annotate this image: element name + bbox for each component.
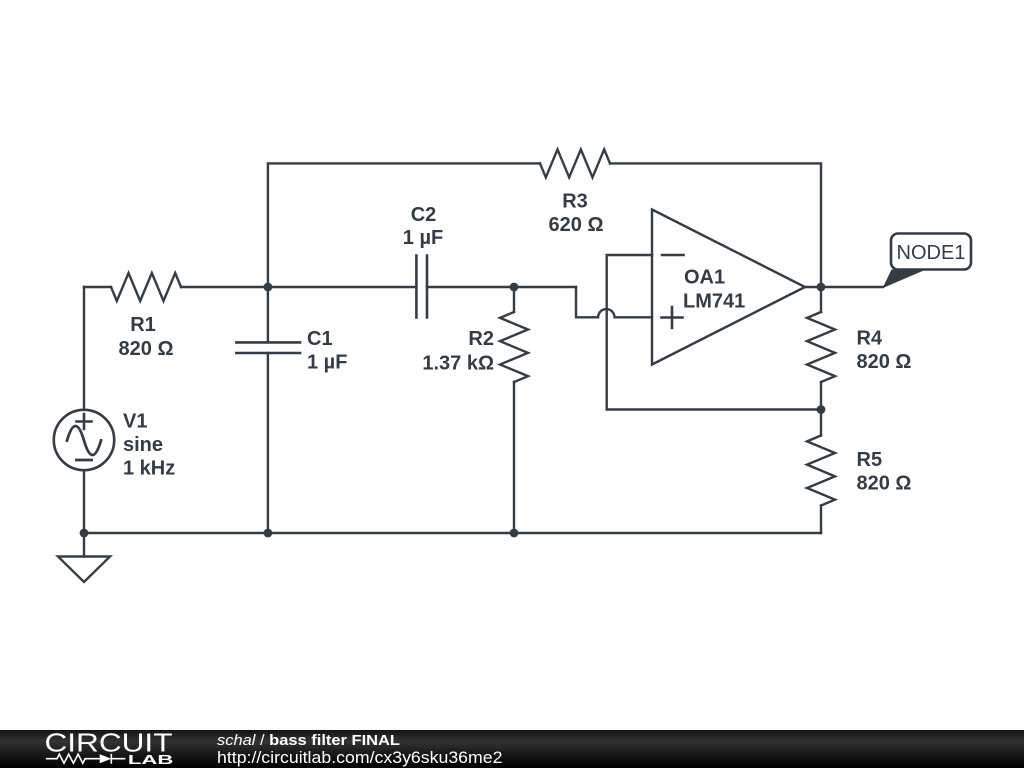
- svg-text:OA1: OA1: [684, 267, 725, 289]
- svg-text:820 Ω: 820 Ω: [857, 472, 912, 494]
- junction dot (84,533): [80, 529, 89, 538]
- junction dot (821,287): [817, 283, 826, 292]
- svg-text:1 µF: 1 µF: [307, 352, 347, 374]
- capacitor C1: [236, 342, 300, 353]
- svg-text:LM741: LM741: [683, 290, 745, 312]
- svg-text:R3: R3: [562, 191, 588, 213]
- NODE1 flag box: [891, 234, 971, 270]
- resistor R5: [820, 410, 822, 436]
- svg-text:schal / bass filter FINAL: schal / bass filter FINAL: [217, 732, 400, 749]
- wire: node down to R2: [513, 287, 515, 312]
- svg-text:NODE1: NODE1: [897, 242, 966, 264]
- V1 plus sign: [77, 414, 92, 429]
- resistor R3: [540, 149, 610, 177]
- wire: top rail left + left vertical: [268, 163, 540, 287]
- wire: C2 to node: [427, 286, 576, 288]
- svg-text:http://circuitlab.com/cx3y6sku: http://circuitlab.com/cx3y6sku36me2: [217, 748, 503, 767]
- svg-text:620 Ω: 620 Ω: [549, 214, 604, 236]
- junction dot (514,287): [510, 283, 519, 292]
- wire: C1 to bottom rail: [267, 353, 269, 533]
- op-amp OA1: [652, 210, 805, 365]
- resistor R2: [500, 312, 528, 382]
- svg-text:V1: V1: [123, 411, 147, 433]
- svg-text:820 Ω: 820 Ω: [119, 338, 174, 360]
- svg-text:C1: C1: [307, 328, 333, 350]
- junction dot (267.9,533): [264, 529, 273, 538]
- wire: R1 to C2: [181, 286, 416, 288]
- junction dot (267.9,287): [264, 283, 273, 292]
- svg-text:R5: R5: [857, 449, 883, 471]
- wire: output to NODE1: [805, 286, 883, 288]
- op-amp minus input glyph: [662, 254, 684, 257]
- wire: V1 leads: [83, 287, 85, 533]
- svg-text:1 kHz: 1 kHz: [123, 458, 175, 480]
- ground symbol: [58, 557, 110, 583]
- wire: jog down to + input with hop: [576, 287, 652, 317]
- svg-text:1.37 kΩ: 1.37 kΩ: [422, 352, 494, 374]
- wire: node down to C1: [267, 287, 269, 342]
- wire: top rail right + right vertical down to output node: [610, 163, 821, 287]
- svg-text:sine: sine: [123, 434, 163, 456]
- junction dot (514,533): [510, 529, 519, 538]
- capacitor C2: [416, 256, 427, 318]
- wire: bottom rail: [84, 532, 821, 534]
- svg-text:1 µF: 1 µF: [403, 227, 443, 249]
- resistor R1: [111, 273, 181, 301]
- wire: R2 to bottom rail: [513, 382, 515, 533]
- V1 minus sign: [77, 459, 92, 462]
- wire: V1 top to R1: [84, 286, 111, 288]
- wire: ground stub: [83, 533, 85, 557]
- svg-text:R2: R2: [468, 328, 494, 350]
- junction dot (821,409.5): [817, 405, 826, 414]
- voltage source V1: [54, 410, 114, 470]
- resistor R4: [820, 287, 822, 312]
- V1 sine symbol: [67, 426, 101, 455]
- NODE1 flag pointer: [883, 270, 927, 289]
- CircuitLab logo resistor+diode glyph: [46, 754, 126, 764]
- svg-text:C2: C2: [411, 204, 437, 226]
- wire: feedback loop (- input to R4/R5 node): [607, 255, 821, 410]
- svg-text:LAB: LAB: [128, 752, 173, 767]
- svg-text:820 Ω: 820 Ω: [857, 351, 912, 373]
- op-amp plus input glyph: [662, 307, 683, 328]
- svg-text:R1: R1: [130, 314, 156, 336]
- svg-text:R4: R4: [857, 328, 883, 350]
